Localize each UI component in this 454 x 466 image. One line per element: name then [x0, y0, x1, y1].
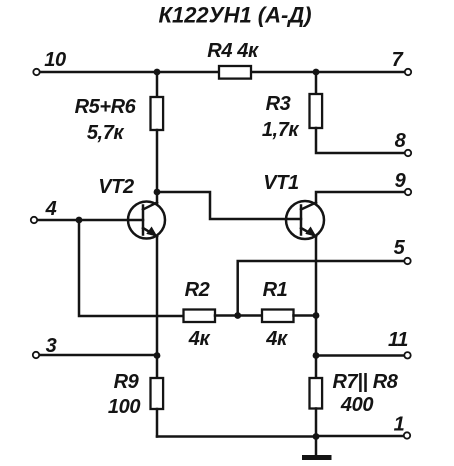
svg-text:R9: R9 [114, 371, 140, 393]
resistor R2 [184, 310, 216, 323]
svg-text:3: 3 [46, 335, 57, 357]
resistor R9 [151, 378, 164, 409]
terminal pin 8 [405, 150, 411, 156]
svg-text:R1: R1 [263, 279, 288, 301]
wire VT2 collector up to node C [156, 192, 159, 204]
wire pin 4 to VT2 base [38, 219, 144, 222]
transistor VT1 [286, 201, 324, 239]
node F junction [313, 312, 320, 319]
svg-text:1: 1 [394, 414, 405, 436]
wire R5+R6 bottom to node C [156, 130, 159, 192]
svg-text:7: 7 [392, 49, 404, 71]
wire R1 right to node F [294, 314, 317, 317]
wire node A to R4 left [157, 71, 219, 74]
terminal pin 10 [33, 69, 39, 75]
svg-text:5: 5 [394, 237, 406, 259]
terminal pin 4 [31, 217, 37, 223]
node E junction [234, 312, 241, 319]
node C junction [154, 189, 161, 196]
terminal pin 3 [33, 352, 39, 358]
wire node H to pin 1 [316, 435, 403, 438]
terminal pin 11 [404, 352, 410, 358]
terminal pin 9 [405, 189, 411, 195]
wire node C to VT1 base [157, 192, 301, 219]
wire node A down to R5+R6 [156, 72, 159, 97]
svg-text:9: 9 [395, 170, 407, 192]
wire VT1 emitter down [315, 237, 318, 379]
svg-text:VT1: VT1 [263, 172, 299, 194]
svg-text:10: 10 [44, 49, 66, 71]
svg-text:VT2: VT2 [98, 176, 134, 198]
node D junction [76, 217, 83, 224]
node G junction [313, 352, 320, 359]
wire node E up and right to pin 5 [238, 261, 404, 316]
bottom rail wire [157, 435, 316, 438]
terminal pin 7 [405, 69, 411, 75]
resistor R7||R8 [310, 378, 323, 409]
transistor VT2 [128, 202, 165, 239]
wire pin 3 to node I [40, 354, 158, 357]
resistor R4 [219, 66, 251, 79]
wire R3 bottom to pin 8 [316, 128, 404, 153]
terminal pin 1 [404, 432, 410, 438]
svg-text:8: 8 [395, 130, 407, 152]
node A junction [154, 69, 161, 76]
svg-text:100: 100 [108, 396, 140, 418]
terminal pin 5 [404, 258, 410, 264]
wire R4 right to node B [251, 71, 316, 74]
node I junction [154, 352, 161, 359]
wire R9 bottom to bottom rail [156, 409, 159, 437]
svg-text:R4 4к: R4 4к [207, 40, 259, 62]
wire pin10 to node A [40, 71, 157, 74]
svg-text:R2: R2 [185, 279, 210, 301]
svg-text:R3: R3 [266, 93, 291, 115]
svg-text:5,7к: 5,7к [87, 122, 125, 144]
svg-text:К122УН1 (А-Д): К122УН1 (А-Д) [158, 3, 311, 28]
ground [302, 437, 332, 458]
wire VT2 emitter down to node I [156, 237, 159, 379]
wire R7R8 bottom to node H [315, 409, 318, 437]
wire node D down to R2 left [79, 220, 184, 316]
wire node G to pin 11 [316, 354, 404, 357]
node B junction [313, 69, 320, 76]
svg-text:11: 11 [388, 329, 408, 351]
resistor R1 [262, 310, 294, 323]
svg-text:4: 4 [45, 198, 57, 220]
svg-text:R5+R6: R5+R6 [75, 96, 137, 118]
svg-text:400: 400 [340, 394, 373, 416]
node H junction [313, 433, 320, 440]
wire VT1 collector to pin 9 [316, 192, 404, 204]
svg-text:R7|| R8: R7|| R8 [332, 371, 398, 393]
resistor R3 [310, 94, 323, 128]
wire R2 right to R1 left [215, 314, 262, 317]
resistor R5+R6 [151, 97, 164, 130]
wire node B to pin 7 [316, 71, 404, 74]
svg-text:1,7к: 1,7к [262, 119, 300, 141]
svg-text:4к: 4к [265, 328, 288, 350]
wire node B down to R3 [315, 72, 318, 94]
svg-text:4к: 4к [188, 328, 211, 350]
